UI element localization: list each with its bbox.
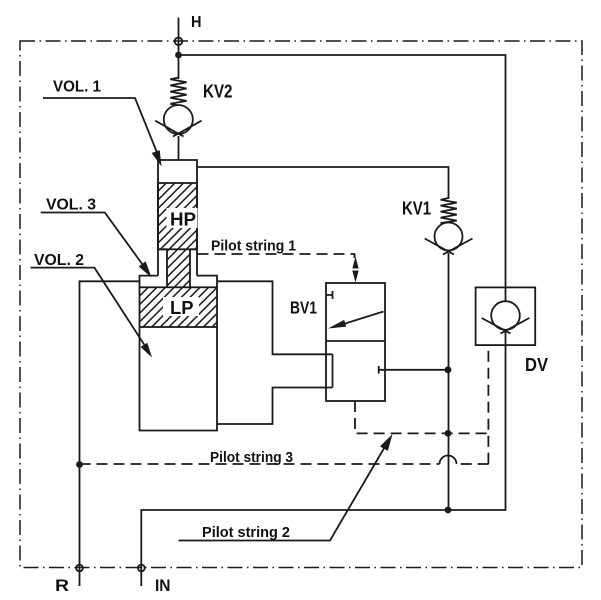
svg-text:IN: IN xyxy=(155,576,171,595)
LP piston hatched xyxy=(140,287,218,327)
svg-text:BV1: BV1 xyxy=(290,298,317,318)
check valve DV ball xyxy=(491,301,520,330)
junction dot BV1 out on KV1 line xyxy=(445,366,452,373)
pilot string 3 dashed wire xyxy=(80,463,440,465)
junction dot below H xyxy=(175,52,182,59)
LP cylinder body (VOL.2 chamber) xyxy=(140,327,218,431)
BV1 pilot dashed wire down xyxy=(355,401,489,433)
spring of check valve KV2 xyxy=(170,78,186,106)
svg-text:VOL. 1: VOL. 1 xyxy=(53,79,101,96)
label HP window xyxy=(167,208,198,228)
valve DV body xyxy=(476,287,536,345)
node H port stub wire xyxy=(178,18,180,80)
BV1 left port notch xyxy=(332,354,334,387)
HP cylinder body (VOL.1 chamber) xyxy=(158,160,197,276)
check valve KV2 seat xyxy=(155,121,201,137)
wire LP flange right to BV1 upper-left port xyxy=(217,281,333,354)
node R border connection circle xyxy=(76,565,83,572)
node R port stub xyxy=(79,568,81,586)
junction dot KV1 line at IN wire xyxy=(445,507,452,514)
flange top edges xyxy=(140,276,218,288)
svg-text:DV: DV xyxy=(525,354,549,375)
BV1 pilot double arrow xyxy=(352,257,358,269)
valve BV1 body xyxy=(326,283,385,401)
pilot string 1 dashed wire xyxy=(198,254,355,258)
svg-text:VOL. 2: VOL. 2 xyxy=(34,252,84,269)
BV1 top position blocked port xyxy=(326,291,333,299)
HP piston hatched xyxy=(158,183,197,249)
junction dot pilot string 3 on R line xyxy=(76,461,83,468)
wire IN to DV bottom xyxy=(141,345,505,586)
DV pilot dashed wire xyxy=(487,345,489,464)
wire LP left to R line xyxy=(80,281,140,568)
pilot string 3 crossover bump xyxy=(440,456,457,465)
BV1 top position flow arrow xyxy=(334,312,384,328)
label LP window xyxy=(163,297,199,316)
wire LP bottom right to BV1 lower-left port xyxy=(217,388,333,425)
wire KV2 to cylinder top xyxy=(178,136,180,160)
DV internal wire bottom xyxy=(505,332,507,345)
check valve KV1 ball xyxy=(435,223,463,251)
wire cylinder top to KV1 xyxy=(197,167,449,199)
check valve KV2 ball xyxy=(164,105,193,134)
svg-text:Pilot string 1: Pilot string 1 xyxy=(211,238,296,255)
leader VOL.2 xyxy=(31,268,150,352)
node H border connection circle xyxy=(175,38,183,46)
wire from H junction to DV top xyxy=(179,55,506,287)
svg-text:R: R xyxy=(55,576,69,595)
svg-text:LP: LP xyxy=(170,298,194,318)
check valve DV seat xyxy=(482,318,530,334)
piston rod hatched xyxy=(167,249,190,287)
BV1 bottom position port with plug xyxy=(379,366,448,374)
spring of check valve KV1 xyxy=(441,198,457,225)
leader VOL.1 xyxy=(43,98,158,155)
leader pilot string 2 xyxy=(179,438,391,541)
leader VOL.3 xyxy=(41,213,148,273)
check valve KV1 seat xyxy=(425,239,473,255)
svg-text:VOL. 3: VOL. 3 xyxy=(46,197,96,214)
valve BV1 center divider xyxy=(326,340,385,342)
DV internal wire top xyxy=(505,287,507,302)
KV1 output wire down to IN line xyxy=(448,253,450,510)
svg-text:HP: HP xyxy=(170,210,196,230)
node IN border connection circle xyxy=(138,565,145,572)
junction dot KV1 line with pilot dashes xyxy=(445,430,452,437)
HP piston shoulders xyxy=(158,248,197,250)
svg-text:Pilot string 2: Pilot string 2 xyxy=(202,524,290,541)
svg-text:H: H xyxy=(191,14,202,31)
svg-text:Pilot string 3: Pilot string 3 xyxy=(210,449,293,466)
svg-text:KV1: KV1 xyxy=(402,198,431,219)
svg-text:KV2: KV2 xyxy=(203,81,233,102)
